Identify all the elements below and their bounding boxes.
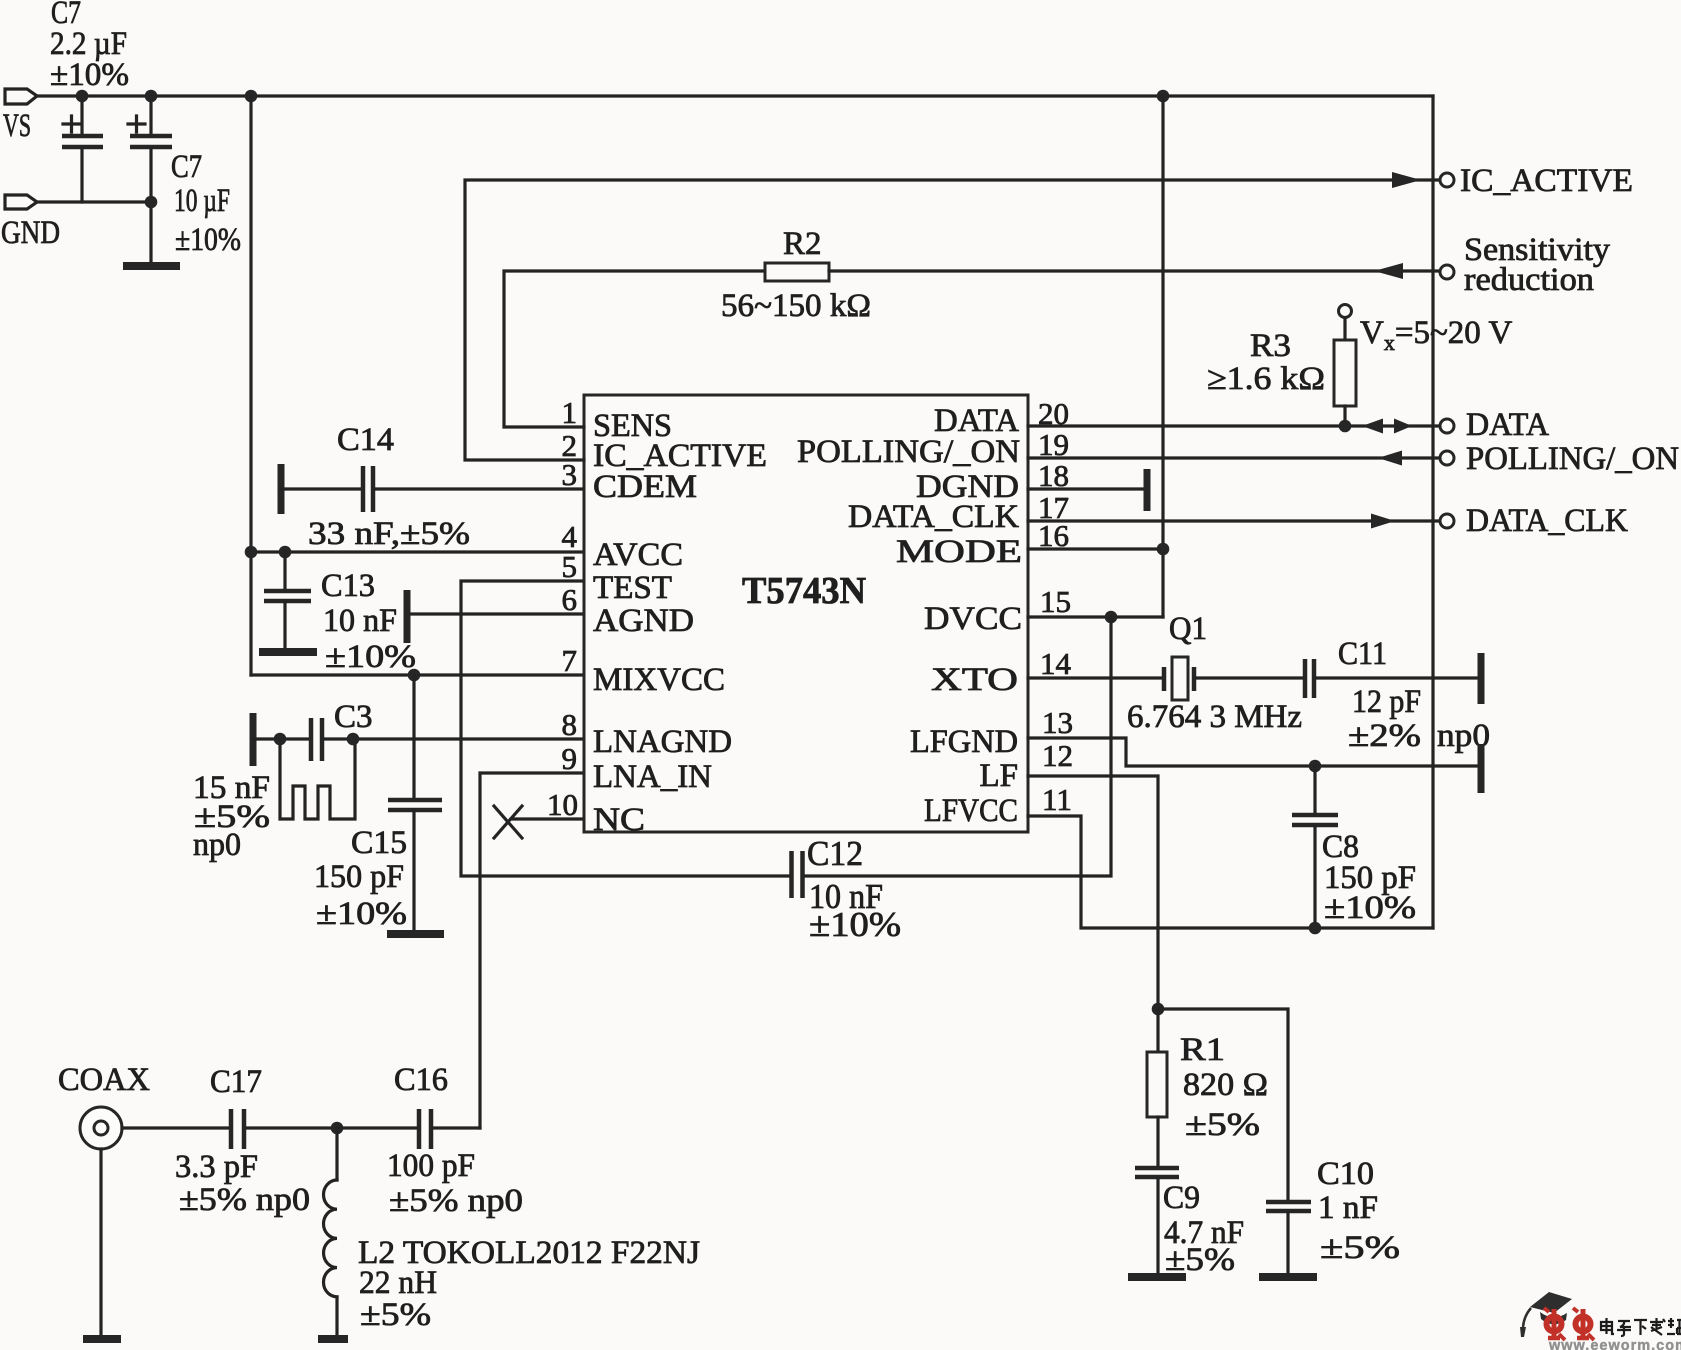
wire AVCC pin 4 [251,550,584,553]
capacitor C15 [314,675,442,932]
junction dot MODE / mid bus [1157,543,1170,556]
no-connect cross pin 10 [494,806,522,838]
svg-text:DATA_CLK: DATA_CLK [848,499,1019,535]
svg-text:100 pF: 100 pF [387,1148,475,1184]
wire junction to C16 [337,1126,417,1129]
label Sensitivity reduction [1464,232,1611,298]
svg-text:MIXVCC: MIXVCC [593,662,725,698]
ground below C7 [123,262,180,270]
capacitor C9 [1135,1168,1244,1278]
inductor L2 [323,1128,700,1336]
wire XTO pin 14 [1028,676,1162,679]
ground below C9 [1128,1273,1186,1281]
svg-text:GND: GND [1,215,60,251]
svg-text:VS: VS [3,108,31,144]
junction dot LFVCC rail / C8 [1309,922,1322,935]
capacitor C7 (10 uF) [128,96,241,264]
svg-text:12 pF: 12 pF [1352,684,1421,720]
svg-text:LFGND: LFGND [910,724,1018,760]
svg-text:LNA_IN: LNA_IN [593,759,712,795]
wire LFVCC pin 11 [1028,816,1433,928]
svg-text:820 Ω: 820 Ω [1183,1067,1268,1103]
svg-text:C16: C16 [394,1062,448,1098]
arrow IC_ACTIVE output [1392,172,1421,188]
svg-text:reduction: reduction [1464,262,1594,298]
terminal GND [1,195,60,251]
svg-text:13: 13 [1042,705,1073,740]
svg-text:6: 6 [562,582,578,617]
ground below C15 [387,930,444,938]
junction dot top rail / C7a [76,90,89,103]
wire TEST pin 5 to C12 [461,581,789,876]
arrow Sensitivity reduction [1374,263,1403,279]
svg-text:6.764 3 MHz: 6.764 3 MHz [1127,699,1302,735]
XTO termination bar [1478,653,1485,704]
wire C16 to LNA_IN riser [433,1126,480,1129]
junction dot GND / C7b [145,196,158,209]
capacitor C13 [264,552,416,675]
terminal circle IC_ACTIVE [1440,173,1454,187]
svg-text:±10%: ±10% [325,639,416,675]
wire DGND pin 18 [1028,487,1147,490]
junction dot DATA / R3 [1339,420,1352,433]
svg-text:±5%: ±5% [1165,1242,1235,1278]
svg-text:14: 14 [1040,646,1072,681]
terminal circle Sensitivity reduction [1440,265,1454,279]
ground below C13 [259,648,317,656]
svg-text:56~150 kΩ: 56~150 kΩ [721,288,871,324]
capacitor C8 [1292,766,1416,928]
svg-text:POLLING/_ON: POLLING/_ON [797,434,1020,470]
svg-text:150 pF: 150 pF [314,859,404,895]
capacitor C17 [175,1064,310,1218]
wire LNA_IN pin 9 down to antenna [480,773,584,1128]
DGND termination bar [1144,469,1151,511]
svg-text:±10%: ±10% [1324,890,1416,926]
arrow DATA bidirectional [1362,419,1412,434]
wire left supply bus [249,96,252,675]
svg-text:C11: C11 [1338,636,1387,672]
junction dot AVCC / C13 [279,546,292,559]
svg-text:C10: C10 [1317,1156,1374,1192]
svg-text:±10%: ±10% [175,222,241,258]
svg-text:R3: R3 [1250,328,1291,364]
watermark graduation cap [1520,1292,1572,1337]
svg-text:10 µF: 10 µF [174,183,230,219]
svg-text:TEST: TEST [593,570,672,606]
svg-text:33 nF,±5%: 33 nF,±5% [308,516,470,552]
svg-text:C9: C9 [1163,1180,1200,1216]
svg-text:C7: C7 [171,149,202,185]
svg-text:np0: np0 [193,827,241,863]
svg-text:COAX: COAX [58,1062,150,1098]
svg-text:1: 1 [562,395,578,430]
svg-text:www.eeworm.com: www.eeworm.com [1548,1338,1681,1350]
arrow DATA_CLK output [1371,514,1395,529]
watermark text dianzi xiazaizhan [1601,1318,1681,1336]
junction dot AVCC / left bus [245,546,258,559]
svg-text:±2%: ±2% [1348,718,1421,754]
wire loop filter link to C10 [1158,1009,1288,1201]
junction dot top rail / mid bus [1157,90,1170,103]
svg-text:R1: R1 [1180,1032,1225,1068]
arrow POLLING/_ON input [1378,451,1402,466]
svg-text:C13: C13 [321,568,375,604]
junction dot MIXVCC / C15 [408,669,421,682]
svg-text:C17: C17 [210,1064,262,1100]
svg-text:22 nH: 22 nH [359,1265,437,1301]
svg-text:±10%: ±10% [809,905,901,944]
resistor R2 [721,226,871,324]
svg-text:CDEM: CDEM [593,469,697,505]
svg-text:NC: NC [593,802,645,838]
watermark red logo chongchong [1544,1308,1594,1340]
junction dot LF rail / C8 [1309,760,1322,773]
capacitor C3 [193,699,584,863]
COAX connector [58,1062,150,1149]
wire IC_ACTIVE net pin 2 to output [465,180,1439,460]
svg-text:C15: C15 [351,825,407,861]
svg-text:8: 8 [562,707,578,742]
svg-text:AVCC: AVCC [593,537,683,573]
junction dot C3 left / meander [274,733,287,746]
svg-text:XTO: XTO [931,662,1018,698]
wire COAX stem [99,1149,102,1336]
wire SENS net pin 1 to R2 [504,271,765,427]
svg-text:1 nF: 1 nF [1318,1190,1378,1226]
junction dot antenna node [331,1122,344,1135]
svg-text:T5743N: T5743N [742,570,866,612]
wire right supply bus [1431,96,1434,928]
svg-text:C14: C14 [337,422,394,458]
svg-text:10 nF: 10 nF [323,603,397,639]
junction dot top rail / C7b [145,90,158,103]
wire Sensitivity reduction input [829,269,1439,272]
wire LFGND pin 13 to LF rail [1028,738,1480,766]
capacitor C11 [1305,636,1490,754]
svg-text:IC_ACTIVE: IC_ACTIVE [1460,163,1633,199]
terminal circle DATA_CLK [1440,514,1454,528]
svg-text:±5%: ±5% [360,1297,431,1333]
svg-text:≥1.6 kΩ: ≥1.6 kΩ [1207,361,1325,397]
capacitor C16 [387,1062,523,1219]
wire POLLING/_ON net pin 19 [1028,456,1439,459]
op IC U1 T5743N box [584,395,1028,832]
capacitor C12 [792,834,902,944]
svg-text:12: 12 [1042,738,1073,773]
svg-text:DATA: DATA [1466,407,1549,443]
wire NC pin 10 stub [511,817,584,820]
svg-text:AGND: AGND [593,603,694,639]
svg-text:Q1: Q1 [1169,611,1207,647]
junction dot loop filter node [1152,1003,1165,1016]
svg-text:LNAGND: LNAGND [593,724,732,760]
resistor R1 [1147,1009,1268,1166]
ground below COAX [83,1335,121,1343]
wire GND link [37,200,151,203]
crystal Q1 [1127,611,1302,735]
svg-text:±5% np0: ±5% np0 [389,1183,523,1219]
ground below L2 [318,1335,348,1343]
svg-text:Vx=5~20 V: Vx=5~20 V [1360,315,1512,355]
wire COAX to C17 [122,1126,229,1129]
svg-text:3.3 pF: 3.3 pF [175,1149,258,1185]
ground below C10 [1259,1273,1317,1281]
svg-text:9: 9 [562,741,578,776]
junction dot top rail / left bus [245,90,258,103]
printed inductor meander parallel to C3 [280,739,355,819]
wire XTO to C11 [1196,676,1303,679]
svg-text:DVCC: DVCC [924,601,1022,637]
svg-text:LFVCC: LFVCC [924,793,1018,829]
wire C11 to bar [1316,676,1480,679]
svg-text:C3: C3 [334,699,373,735]
wire LF pin 12 to loop filter [1028,776,1158,1009]
LF termination bar [1478,744,1485,793]
svg-text:MODE: MODE [896,534,1022,570]
terminal VS [3,89,37,144]
svg-text:LF: LF [979,758,1018,794]
capacitor C10 [1266,1156,1400,1275]
svg-text:15: 15 [1040,584,1071,619]
svg-text:±10%: ±10% [50,57,129,93]
junction dot DVCC / C12 riser [1105,611,1118,624]
capacitor C14 [281,422,584,552]
terminal circle DATA [1440,419,1454,433]
resistor R3 [1207,305,1356,427]
junction dot C3 right / meander [347,733,360,746]
svg-text:±10%: ±10% [316,896,407,932]
wire mid supply bus [1161,96,1164,617]
wire C17 to junction [246,1126,337,1129]
svg-text:3: 3 [562,457,578,492]
wire DATA_CLK net pin 17 [1028,519,1439,522]
svg-text:7: 7 [562,643,578,678]
wire MIXVCC pin 7 [251,673,584,676]
svg-text:10: 10 [547,787,578,822]
svg-text:±5%: ±5% [1320,1230,1400,1266]
svg-text:DATA_CLK: DATA_CLK [1466,503,1628,539]
wire DVCC pin 15 [1028,615,1163,618]
terminal circle POLLING/_ON [1440,451,1454,465]
wire DATA net pin 20 [1028,424,1439,427]
svg-text:POLLING/_ON: POLLING/_ON [1466,441,1679,477]
svg-text:5: 5 [562,549,578,584]
wire VS top rail [37,94,1433,97]
svg-text:±5%: ±5% [1185,1107,1260,1143]
svg-text:±5% np0: ±5% np0 [179,1182,310,1218]
capacitor C7 (2.2 uF) [50,0,129,202]
svg-text:R2: R2 [783,226,822,262]
svg-text:C12: C12 [807,834,863,873]
wire C12 riser to DVCC [803,617,1111,876]
AGND termination bar [404,590,411,643]
wire AGND pin 6 [407,612,584,615]
wire MODE pin 16 [1028,547,1163,550]
svg-text:11: 11 [1042,782,1072,817]
